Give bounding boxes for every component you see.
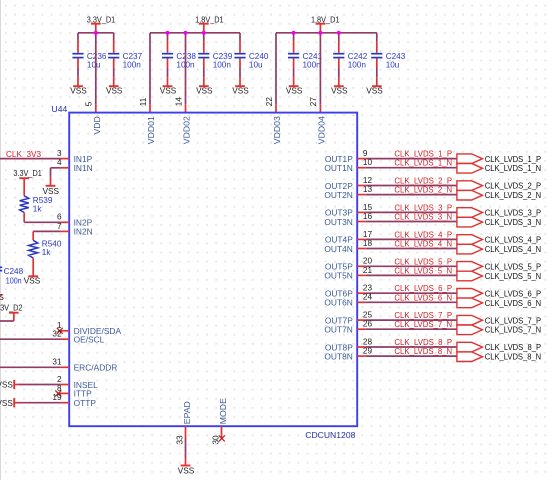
svg-text:CLK_LVDS_7_P: CLK_LVDS_7_P — [394, 311, 452, 320]
svg-text:100n: 100n — [213, 60, 232, 69]
svg-text:17: 17 — [363, 230, 373, 239]
svg-text:6: 6 — [57, 213, 62, 222]
svg-text:1k: 1k — [42, 248, 52, 257]
svg-text:100n: 100n — [123, 60, 142, 69]
svg-text:VSS: VSS — [0, 399, 13, 408]
svg-text:VSS: VSS — [178, 466, 195, 475]
svg-text:CLK_LVDS_4_N: CLK_LVDS_4_N — [485, 244, 541, 254]
svg-text:1k: 1k — [33, 205, 43, 214]
svg-text:ERC/ADDR: ERC/ADDR — [74, 363, 118, 373]
svg-text:CLK_LVDS_2_P: CLK_LVDS_2_P — [394, 177, 452, 186]
svg-text:13: 13 — [363, 185, 373, 194]
svg-text:CLK_LVDS_8_N: CLK_LVDS_8_N — [485, 352, 541, 362]
svg-text:VDD04: VDD04 — [317, 116, 327, 144]
svg-text:CLK_LVDS_5_N: CLK_LVDS_5_N — [485, 271, 541, 281]
svg-text:CLK_LVDS_6_N: CLK_LVDS_6_N — [394, 293, 452, 302]
svg-text:2: 2 — [57, 375, 62, 384]
svg-text:25: 25 — [363, 311, 373, 320]
svg-text:5: 5 — [85, 101, 94, 106]
svg-text:EPAD: EPAD — [182, 401, 192, 424]
svg-text:MODE: MODE — [218, 398, 228, 424]
svg-text:VSS: VSS — [43, 187, 60, 196]
svg-text:CLK_LVDS_7_N: CLK_LVDS_7_N — [394, 320, 452, 329]
svg-text:100n: 100n — [348, 60, 367, 69]
svg-text:26: 26 — [363, 320, 373, 329]
svg-text:10: 10 — [363, 158, 373, 167]
svg-text:10u: 10u — [386, 60, 400, 69]
svg-text:24: 24 — [363, 293, 373, 302]
svg-text:20: 20 — [363, 257, 373, 266]
svg-text:VDD03: VDD03 — [272, 116, 282, 144]
svg-text:3.3V_D1: 3.3V_D1 — [13, 169, 42, 178]
svg-text:VSS: VSS — [70, 87, 87, 96]
svg-text:OUT7N: OUT7N — [324, 325, 352, 335]
svg-text:OUT2N: OUT2N — [324, 190, 352, 200]
svg-text:19: 19 — [52, 393, 62, 402]
svg-text:U44: U44 — [52, 104, 68, 114]
svg-text:VSS: VSS — [106, 87, 123, 96]
svg-text:32: 32 — [52, 330, 62, 339]
svg-text:100n: 100n — [303, 60, 322, 69]
svg-text:11: 11 — [139, 97, 148, 106]
svg-text:IN1N: IN1N — [74, 163, 93, 173]
svg-text:CLK_LVDS_3_N: CLK_LVDS_3_N — [394, 213, 452, 222]
svg-text:15: 15 — [363, 203, 373, 212]
svg-text:CLK_LVDS_2_N: CLK_LVDS_2_N — [485, 190, 541, 200]
svg-text:CLK_LVDS_1_N: CLK_LVDS_1_N — [485, 163, 541, 173]
svg-text:OUT4N: OUT4N — [324, 244, 352, 254]
svg-text:1.8V_D1: 1.8V_D1 — [311, 15, 340, 24]
svg-text:10u: 10u — [249, 60, 263, 69]
svg-text:VSS: VSS — [24, 277, 41, 286]
svg-text:16: 16 — [363, 212, 373, 221]
svg-text:18: 18 — [363, 239, 373, 248]
svg-text:10u: 10u — [87, 60, 101, 69]
svg-text:CLK_LVDS_8_P: CLK_LVDS_8_P — [394, 338, 452, 347]
svg-text:CLK_LVDS_3_P: CLK_LVDS_3_P — [394, 203, 452, 212]
svg-text:CLK_LVDS_1_N: CLK_LVDS_1_N — [394, 159, 452, 168]
svg-text:CLK_LVDS_8_N: CLK_LVDS_8_N — [394, 347, 452, 356]
svg-text:14: 14 — [174, 97, 183, 107]
svg-text:21: 21 — [363, 266, 373, 275]
svg-text:CLK_LVDS_4_N: CLK_LVDS_4_N — [394, 240, 452, 249]
svg-text:CLK_LVDS_5_N: CLK_LVDS_5_N — [394, 266, 452, 275]
svg-text:8: 8 — [57, 384, 62, 393]
svg-text:CLK_LVDS_3_N: CLK_LVDS_3_N — [485, 217, 541, 227]
svg-text:CDCUN1208: CDCUN1208 — [305, 430, 355, 440]
svg-text:VSS: VSS — [160, 87, 177, 96]
svg-text:28: 28 — [363, 337, 373, 346]
svg-text:C248: C248 — [4, 267, 24, 276]
svg-text:12: 12 — [363, 176, 373, 185]
svg-text:4: 4 — [57, 158, 62, 167]
svg-text:9: 9 — [363, 149, 368, 158]
svg-text:CLK_LVDS_5_P: CLK_LVDS_5_P — [394, 257, 452, 266]
svg-text:VDD02: VDD02 — [182, 116, 192, 144]
svg-text:OUT1N: OUT1N — [324, 163, 352, 173]
svg-text:VDD01: VDD01 — [146, 116, 156, 144]
svg-text:31: 31 — [52, 358, 62, 367]
svg-text:3: 3 — [57, 149, 62, 158]
svg-text:VSS: VSS — [196, 87, 213, 96]
svg-text:27: 27 — [309, 97, 318, 107]
svg-text:CLK_LVDS_6_N: CLK_LVDS_6_N — [485, 298, 541, 308]
svg-text:33: 33 — [176, 435, 185, 445]
svg-text:22: 22 — [265, 97, 274, 107]
svg-text:VSS: VSS — [232, 87, 249, 96]
svg-text:OUT8N: OUT8N — [324, 351, 352, 361]
svg-text:VSS: VSS — [366, 87, 383, 96]
svg-text:VDD: VDD — [92, 116, 102, 134]
svg-text:VSS: VSS — [0, 381, 13, 390]
svg-text:CLK_LVDS_7_N: CLK_LVDS_7_N — [485, 325, 541, 335]
svg-text:OTTP: OTTP — [74, 398, 97, 408]
svg-text:100n: 100n — [6, 276, 22, 285]
svg-text:CLK_LVDS_6_P: CLK_LVDS_6_P — [394, 284, 452, 293]
svg-text:IN2N: IN2N — [74, 227, 93, 237]
svg-text:OE/SCL: OE/SCL — [74, 335, 105, 345]
svg-text:VSS: VSS — [286, 87, 303, 96]
svg-text:23: 23 — [363, 284, 373, 293]
svg-text:OUT6N: OUT6N — [324, 298, 352, 308]
svg-text:VSS: VSS — [331, 87, 348, 96]
svg-text:CLK_LVDS_4_P: CLK_LVDS_4_P — [394, 230, 452, 239]
svg-text:7: 7 — [57, 222, 62, 231]
svg-text:3.3V_D2: 3.3V_D2 — [0, 303, 23, 312]
svg-text:CLK_LVDS_1_P: CLK_LVDS_1_P — [394, 150, 452, 159]
svg-text:29: 29 — [363, 347, 373, 356]
svg-text:30: 30 — [212, 435, 221, 445]
svg-text:CLK_LVDS_2_N: CLK_LVDS_2_N — [394, 186, 452, 195]
svg-text:CLK_3V3: CLK_3V3 — [6, 150, 41, 159]
svg-text:OUT3N: OUT3N — [324, 217, 352, 227]
svg-text:OUT5N: OUT5N — [324, 271, 352, 281]
